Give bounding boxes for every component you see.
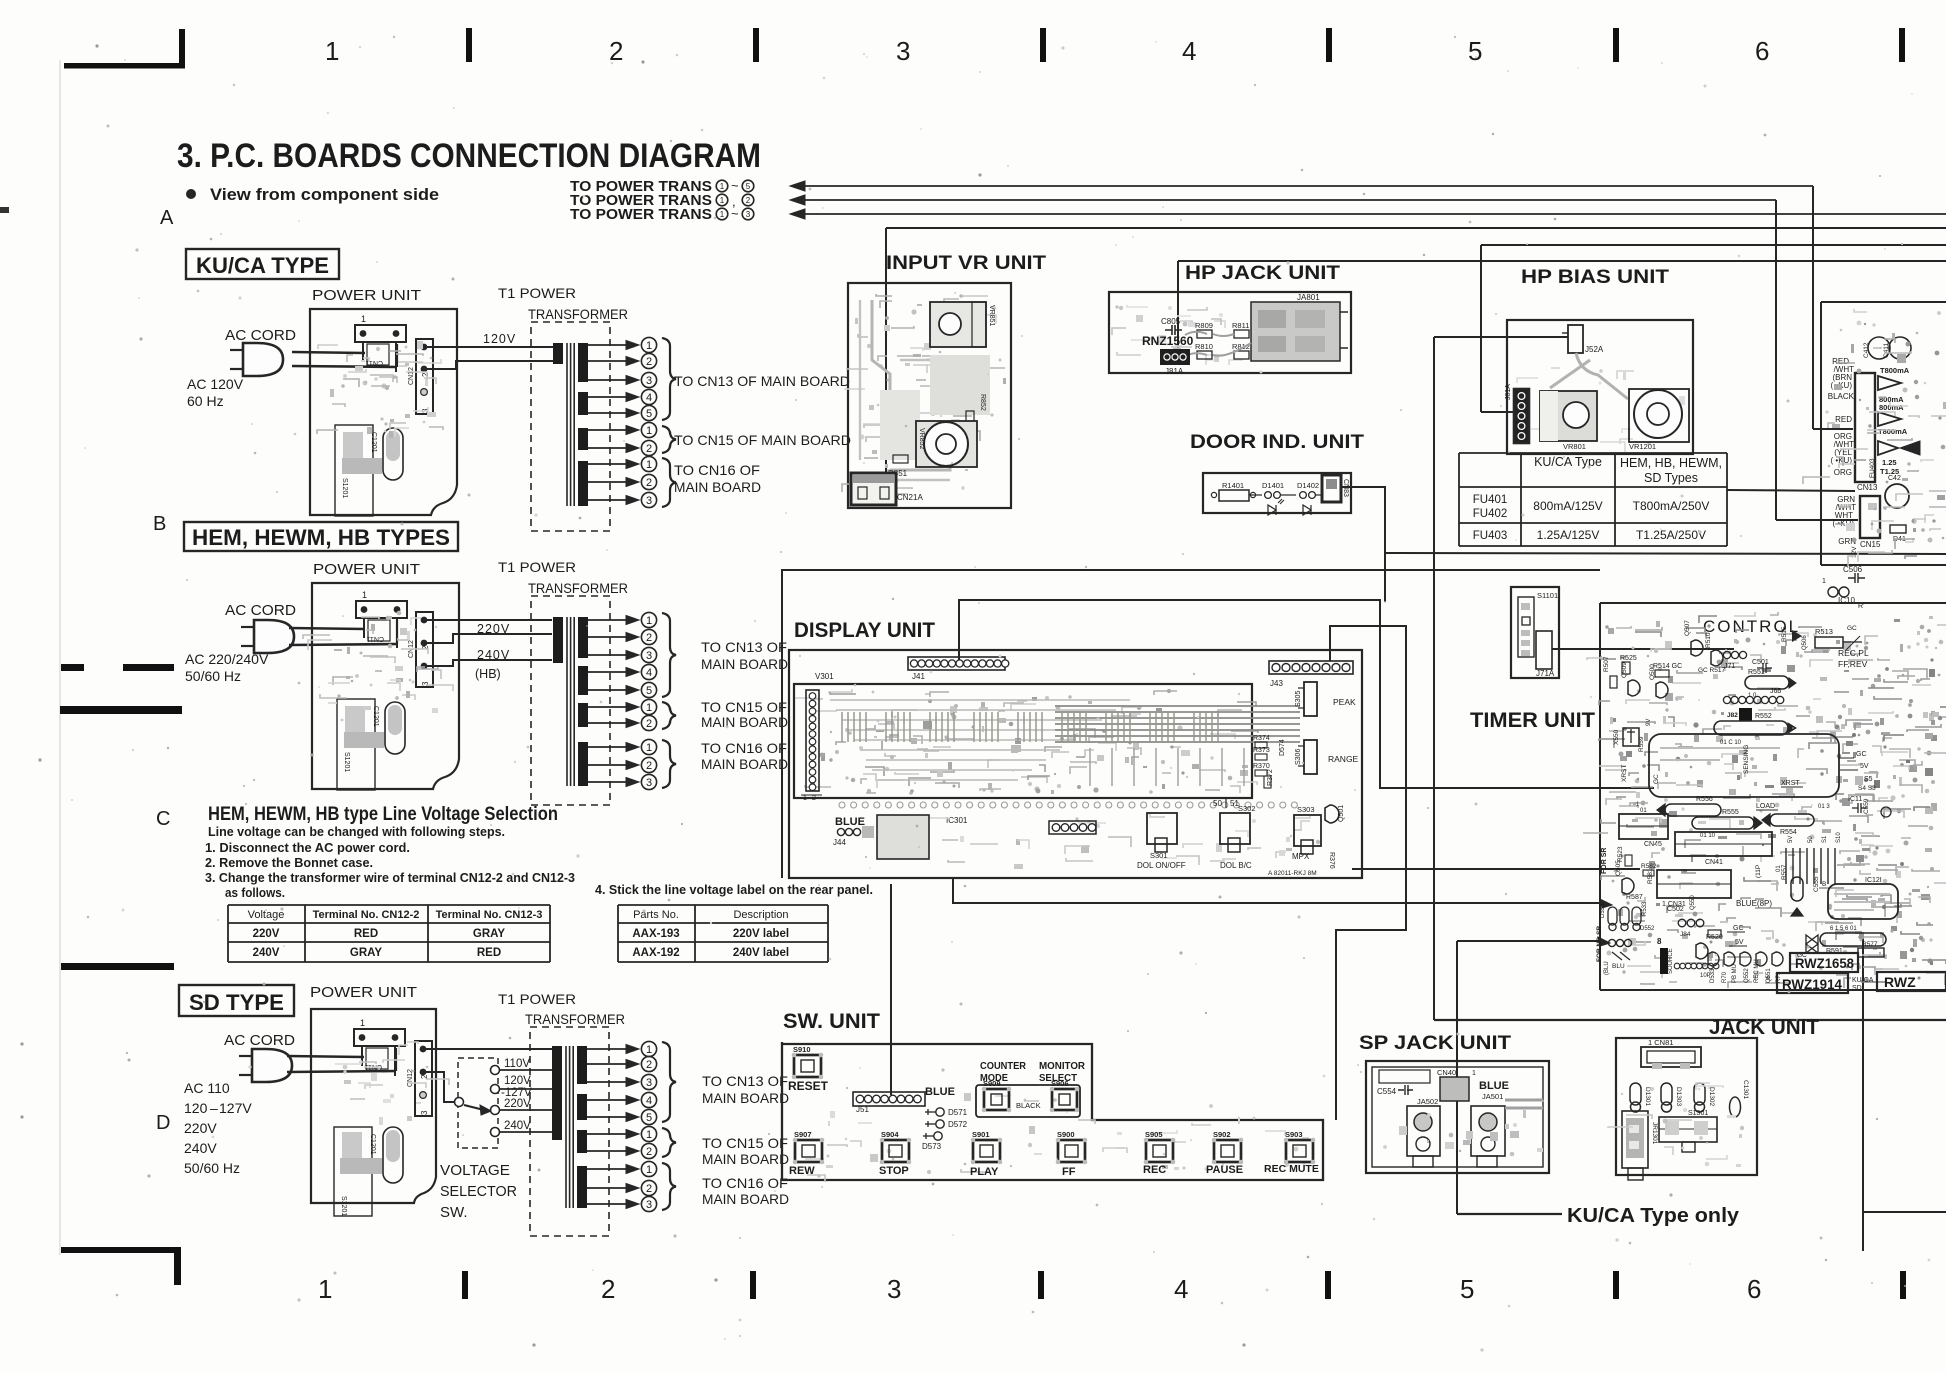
potentiometer VR851 — [930, 302, 986, 347]
wire display J43 to SW unit — [1330, 626, 1406, 1120]
svg-text:1: 1 — [646, 1164, 652, 1176]
IC12I stadium — [1828, 884, 1898, 919]
svg-text:CN12: CN12 — [408, 367, 415, 385]
svg-text:REC MU: REC MU — [1754, 959, 1760, 983]
svg-text:Parts No.: Parts No. — [633, 909, 679, 921]
svg-text:2: 2 — [609, 36, 623, 66]
svg-text:SELECTOR: SELECTOR — [440, 1183, 517, 1200]
svg-text:J44: J44 — [833, 838, 846, 847]
connector J81A — [1160, 349, 1190, 365]
svg-text:127V: 127V — [219, 1100, 252, 1116]
svg-text:120V: 120V — [504, 1075, 531, 1087]
svg-text:ORG: ORG — [1834, 468, 1852, 477]
svg-text:JA502: JA502 — [1417, 1097, 1438, 1106]
connector CN12 — [416, 339, 433, 414]
svg-text:BLACK: BLACK — [1016, 1101, 1041, 1110]
connector J42 — [806, 690, 819, 791]
svg-text:VR851: VR851 — [988, 305, 995, 327]
transformer core — [566, 617, 568, 786]
svg-text:3: 3 — [646, 375, 652, 387]
TIMER UNIT board S1101 outline — [1511, 587, 1559, 678]
svg-text:HEM, HEWM, HB type Line Voltag: HEM, HEWM, HB type Line Voltage Selectio… — [208, 804, 558, 825]
svg-text:POWER UNIT: POWER UNIT — [313, 561, 420, 578]
SP JACK board outline — [1366, 1061, 1549, 1173]
svg-text:1: 1 — [646, 742, 652, 754]
svg-text:R’: R’ — [1858, 603, 1865, 610]
wire display J41 to control — [959, 600, 1654, 788]
svg-text:S910: S910 — [793, 1045, 811, 1054]
svg-text:R370: R370 — [1253, 763, 1270, 770]
display bottom traces — [1087, 820, 1091, 824]
svg-text:(11P: (11P — [1755, 865, 1762, 878]
svg-text:R513: R513 — [1815, 627, 1833, 636]
INPUT VR board gray traces — [894, 479, 898, 483]
transistor Q509 — [1628, 680, 1640, 696]
svg-text:COUNTER: COUNTER — [980, 1060, 1026, 1072]
svg-text:RWZ: RWZ — [1884, 974, 1916, 990]
svg-text:10P: 10P — [1700, 973, 1711, 979]
BLUE connector bottom left — [1608, 939, 1615, 946]
brace CN16 group (SD) — [662, 1163, 676, 1210]
svg-text:FU402: FU402 — [1473, 508, 1508, 520]
diode D571 — [936, 1108, 944, 1116]
wire CN83 to main board CN15 — [1341, 487, 1946, 554]
DISPLAY UNIT board outline — [789, 650, 1362, 878]
svg-text:S909: S909 — [983, 1079, 1001, 1088]
wire J41 junction vertical — [1384, 553, 1386, 602]
svg-text:IC11: IC11 — [1848, 796, 1862, 803]
svg-text:5: 5 — [1468, 36, 1482, 66]
connector J71A — [1536, 631, 1552, 669]
svg-text:D571: D571 — [948, 1108, 968, 1117]
svg-text:1: 1 — [362, 590, 367, 600]
svg-text:AAX-192: AAX-192 — [632, 947, 679, 959]
svg-text:J43: J43 — [1270, 679, 1283, 688]
svg-text:S305: S305 — [1295, 691, 1302, 707]
svg-text:STOP: STOP — [879, 1165, 909, 1177]
left margin dash marks — [0, 207, 9, 213]
fuse triangle 4 bowtie — [1878, 441, 1898, 455]
svg-text:CN11: CN11 — [367, 635, 384, 642]
svg-text:S900: S900 — [1057, 1130, 1075, 1139]
svg-text:R551: R551 — [1748, 669, 1765, 676]
svg-text:4: 4 — [1174, 1274, 1188, 1304]
svg-text:GC: GC — [1847, 625, 1857, 632]
svg-text:50: 50 — [1808, 836, 1814, 843]
svg-text:RWZ1658: RWZ1658 — [1795, 955, 1854, 971]
svg-text:DOL ON/OFF: DOL ON/OFF — [1137, 861, 1186, 870]
svg-text:R810: R810 — [1195, 342, 1213, 351]
svg-text:1: 1 — [325, 36, 339, 66]
svg-text:3: 3 — [887, 1274, 901, 1304]
svg-text:TRANSFORMER: TRANSFORMER — [528, 580, 628, 596]
svg-text:51: 51 — [1230, 799, 1239, 808]
connector CN11 — [355, 325, 406, 342]
svg-text:REC: REC — [1143, 1164, 1166, 1176]
svg-text:50: 50 — [1213, 799, 1222, 808]
svg-text:C: C — [156, 808, 170, 830]
wire control board to jack area — [1862, 935, 1864, 1251]
svg-text:J71: J71 — [1724, 663, 1735, 670]
svg-text:120: 120 — [184, 1100, 208, 1116]
svg-text:S906: S906 — [1051, 1079, 1069, 1088]
transistor Q505 — [1622, 878, 1634, 894]
fuse triangle 3 — [1878, 412, 1901, 426]
bottom transistor row — [1708, 952, 1719, 966]
svg-text:3: 3 — [646, 777, 652, 789]
resistor R556 pill — [1665, 804, 1721, 816]
svg-text:AAX-193: AAX-193 — [632, 928, 679, 940]
svg-text:AC 220/240V: AC 220/240V — [185, 651, 269, 667]
HP BIAS board outline — [1507, 320, 1693, 454]
via row below glass — [839, 802, 845, 808]
svg-text:HP BIAS UNIT: HP BIAS UNIT — [1521, 267, 1669, 288]
svg-text:MAIN BOARD: MAIN BOARD — [701, 714, 788, 730]
svg-text:240V: 240V — [477, 648, 510, 662]
svg-text:FU401: FU401 — [1473, 494, 1508, 506]
svg-text:REC MUTE: REC MUTE — [1264, 1163, 1319, 1175]
svg-text:R559: R559 — [1638, 736, 1645, 752]
control board background noise — [1772, 794, 1794, 798]
power unit PCB outline — [312, 583, 459, 789]
svg-text:RESET: RESET — [788, 1079, 829, 1093]
DOOR IND board outline — [1203, 473, 1351, 513]
power transformer T1 dashed box — [531, 322, 610, 531]
svg-text:3. Change the transformer wi: 3. Change the transformer wire of termin… — [205, 870, 575, 885]
svg-text:SW. UNIT: SW. UNIT — [783, 1010, 880, 1033]
svg-text:6: 6 — [1747, 1274, 1761, 1304]
connector J43 — [1269, 661, 1353, 674]
IC big stadium — [1649, 734, 1839, 797]
svg-text:01: 01 — [1776, 865, 1782, 872]
svg-text:SENSING: SENSING — [1743, 745, 1750, 774]
svg-text:TIMER UNIT: TIMER UNIT — [1470, 709, 1595, 732]
wire CN12 to transformer 120V (KU/CA) — [421, 344, 428, 351]
svg-text:LOAD: LOAD — [1756, 803, 1775, 810]
diode D41 — [1890, 525, 1906, 533]
svg-text:POWER UNIT: POWER UNIT — [310, 984, 417, 1001]
resistor R552 pill — [1714, 721, 1788, 735]
svg-text:220V: 220V — [184, 1120, 217, 1136]
push switch S902 PAUSE — [1214, 1140, 1241, 1162]
svg-text:R376: R376 — [1328, 852, 1335, 869]
svg-text:R507: R507 — [1603, 656, 1610, 672]
svg-text:2: 2 — [646, 632, 652, 644]
connector J65 — [1723, 696, 1730, 703]
svg-text:J82: J82 — [1727, 712, 1738, 719]
switch S1101 inner parts — [1518, 597, 1534, 657]
switch S302 — [1220, 813, 1250, 844]
svg-text:S902: S902 — [1213, 1130, 1231, 1139]
svg-text:4: 4 — [646, 392, 652, 404]
svg-text:S1: S1 — [1822, 835, 1828, 843]
connector CN11 — [356, 601, 407, 618]
diode D572 — [936, 1120, 944, 1128]
connector J82 black — [1739, 708, 1752, 721]
transformer core — [565, 1046, 567, 1208]
svg-text:SD Types: SD Types — [1644, 471, 1698, 485]
push switch S906 — [1052, 1089, 1077, 1110]
svg-text:1: 1 — [360, 1018, 365, 1028]
svg-text:J41: J41 — [912, 672, 925, 681]
svg-text:C506: C506 — [1843, 565, 1863, 574]
svg-text:5: 5 — [646, 408, 652, 420]
svg-text:TO CN15 OF: TO CN15 OF — [701, 699, 787, 715]
wire KU/CA type only leader — [1457, 1213, 1562, 1215]
potentiometer VR1201 — [1629, 389, 1689, 442]
svg-text:1: 1 — [720, 182, 725, 191]
svg-text:3: 3 — [646, 650, 652, 662]
svg-text:2: 2 — [646, 760, 652, 772]
svg-text:S904: S904 — [881, 1130, 899, 1139]
svg-text:MPX: MPX — [1292, 852, 1310, 861]
svg-text:RED: RED — [354, 928, 378, 940]
svg-text:2: 2 — [646, 1059, 652, 1071]
svg-text:3: 3 — [646, 495, 652, 507]
transformer primary winding — [552, 1046, 562, 1140]
svg-text:TO POWER TRANS: TO POWER TRANS — [570, 207, 712, 223]
svg-text:MAIN BOARD: MAIN BOARD — [701, 656, 788, 672]
svg-text:2: 2 — [646, 443, 652, 455]
svg-text:1: 1 — [646, 1129, 652, 1141]
wire display bottom to control D553 — [953, 878, 1600, 903]
section label box HEM HEWM HB TYPES — [184, 522, 458, 551]
svg-text:1: 1 — [646, 615, 652, 627]
wire display outer frame — [782, 570, 1375, 878]
svg-text:Terminal No. CN12-3: Terminal No. CN12-3 — [436, 909, 543, 921]
diode D573 — [934, 1132, 942, 1140]
svg-text:Q505: Q505 — [1615, 860, 1622, 876]
svg-text:REC,PL: REC,PL — [1838, 648, 1869, 658]
svg-text:R374: R374 — [1253, 735, 1270, 742]
switch S301 — [1147, 813, 1177, 844]
wire J52A feed vertical — [1433, 337, 1435, 1020]
svg-text:60 Hz: 60 Hz — [187, 393, 224, 409]
svg-text:R587: R587 — [1626, 894, 1643, 901]
JACK UNIT board outline — [1616, 1038, 1757, 1175]
line voltage label parts table — [618, 904, 828, 906]
svg-text:MAIN BOARD: MAIN BOARD — [702, 1151, 789, 1167]
svg-text:B: B — [1822, 881, 1826, 888]
svg-text:RED: RED — [1835, 415, 1852, 424]
svg-text:2: 2 — [646, 1183, 652, 1195]
brace CN15 group (HEM) — [662, 702, 676, 729]
svg-text:Q500: Q500 — [1649, 664, 1656, 680]
svg-text:4: 4 — [646, 1095, 652, 1107]
svg-text:S302: S302 — [1238, 804, 1256, 813]
svg-text:3: 3 — [646, 1077, 652, 1089]
svg-text:S905: S905 — [1145, 1130, 1163, 1139]
svg-text:X550: X550 — [1613, 729, 1620, 745]
svg-text:MONITOR: MONITOR — [1039, 1060, 1085, 1072]
voltage selection table — [228, 904, 550, 906]
svg-text:R525: R525 — [1620, 655, 1637, 662]
connector CN31 — [1657, 870, 1731, 898]
transistor Q510 — [1711, 650, 1723, 666]
push switch S901 PLAY — [973, 1140, 1000, 1162]
svg-text:XRST: XRST — [1621, 765, 1628, 782]
potentiometer VR801 — [1540, 391, 1597, 441]
svg-text:J51: J51 — [856, 1105, 869, 1114]
svg-text:Q507: Q507 — [1684, 620, 1691, 636]
svg-text:BLU: BLU — [1612, 963, 1625, 970]
svg-text:1: 1 — [1472, 1070, 1476, 1077]
svg-text:1 CN81: 1 CN81 — [1648, 1038, 1673, 1047]
connector CN41 — [1675, 832, 1772, 856]
svg-text:C554: C554 — [1377, 1087, 1397, 1096]
svg-text:TO CN16 OF: TO CN16 OF — [702, 1175, 788, 1191]
transistor Q501 — [1325, 805, 1339, 823]
svg-text:GC: GC — [1856, 751, 1867, 758]
resistor R554 pill — [1770, 814, 1814, 826]
wire hp-jack-unit to main board — [1178, 260, 1946, 262]
HP BIAS gray traces — [1550, 353, 1628, 420]
svg-text:2: 2 — [601, 1274, 615, 1304]
svg-text:4: 4 — [1182, 36, 1196, 66]
svg-text:6: 6 — [1755, 36, 1769, 66]
svg-text:REW: REW — [789, 1165, 815, 1177]
svg-text:S5: S5 — [1864, 776, 1873, 783]
power unit PCB artwork (SD) — [334, 1127, 372, 1216]
diode D1302 — [1694, 1083, 1705, 1105]
svg-text:R515: R515 — [1781, 626, 1788, 642]
svg-text:800mA: 800mA — [1879, 403, 1904, 412]
svg-text:CN45: CN45 — [1644, 841, 1662, 848]
svg-text:CN83: CN83 — [1342, 479, 1349, 497]
power transformer T1 dashed box — [530, 1027, 609, 1236]
svg-text:CN40: CN40 — [1437, 1068, 1456, 1077]
svg-text:5V: 5V — [1735, 939, 1744, 946]
svg-text:J52A: J52A — [1585, 345, 1604, 354]
transformer secondary windings — [578, 343, 588, 382]
svg-text:(BLU: (BLU — [1604, 961, 1610, 975]
connector J52A — [1568, 325, 1583, 353]
svg-text:R70: R70 — [1722, 971, 1728, 983]
svg-text:TO CN15 OF MAIN BOARD: TO CN15 OF MAIN BOARD — [674, 432, 851, 448]
svg-text:S1201: S1201 — [340, 1196, 347, 1216]
svg-text:GC R517: GC R517 — [1698, 667, 1725, 674]
svg-text:2. Remove the Bonnet case.: 2. Remove the Bonnet case. — [205, 855, 373, 870]
svg-text:2: 2 — [646, 356, 652, 368]
SP JACK label sticker — [1379, 1070, 1430, 1083]
svg-text:240V: 240V — [504, 1120, 531, 1132]
svg-text:01 C 10: 01 C 10 — [1720, 740, 1742, 746]
svg-text:S4 S3: S4 S3 — [1858, 785, 1876, 792]
brace CN16 group (KU/CA) — [662, 458, 676, 507]
diode D1303 — [1661, 1083, 1672, 1105]
svg-text:R373: R373 — [1253, 747, 1270, 754]
svg-text:3: 3 — [746, 210, 751, 219]
svg-text:Q550: Q550 — [1690, 895, 1696, 910]
page specks — [95, 44, 98, 47]
svg-text:TRANSFORMER: TRANSFORMER — [528, 306, 628, 322]
svg-text:T800mA/250V: T800mA/250V — [1633, 499, 1710, 513]
svg-text:KU/CA TYPE: KU/CA TYPE — [196, 253, 329, 278]
svg-text:POWER UNIT: POWER UNIT — [312, 287, 421, 304]
push switch S905 REC — [1146, 1140, 1173, 1162]
svg-text:C559: C559 — [1863, 798, 1870, 814]
svg-text:VR801: VR801 — [1563, 442, 1586, 451]
svg-text:JR1301: JR1301 — [1651, 1122, 1658, 1145]
connector J51 — [853, 1092, 925, 1106]
wire fuse table to CN15 — [1727, 490, 1855, 491]
svg-text:AC CORD: AC CORD — [225, 327, 296, 344]
svg-text:KU/CA Type: KU/CA Type — [1534, 455, 1602, 469]
vertical trace cluster — [1785, 848, 1787, 884]
svg-text:Q552: Q552 — [1744, 968, 1750, 983]
svg-text:4. Stick the line voltage la: 4. Stick the line voltage label on the r… — [595, 882, 873, 897]
svg-text:3: 3 — [896, 36, 910, 66]
svg-text:KU/CA Type only: KU/CA Type only — [1567, 1205, 1740, 1227]
brace CN13 group (SD) — [662, 1042, 676, 1122]
potentiometer VR852 — [916, 421, 977, 467]
svg-text:S1101: S1101 — [1537, 591, 1558, 600]
svg-text:TO CN15 OF: TO CN15 OF — [702, 1135, 788, 1151]
brace CN13 group (HEM) — [662, 613, 676, 697]
svg-text:GRAY: GRAY — [350, 947, 382, 959]
svg-text:FOR SR: FOR SR — [1601, 848, 1608, 874]
svg-text:as follows.: as follows. — [225, 885, 285, 900]
svg-text:D1401: D1401 — [1262, 481, 1284, 490]
connector CN12 — [415, 1041, 432, 1116]
svg-text:JA801: JA801 — [1297, 293, 1320, 302]
svg-text:S1201: S1201 — [341, 478, 348, 498]
svg-text:3. P.C. BOARDS CONNECTION D: 3. P.C. BOARDS CONNECTION DIAGRAM — [177, 137, 761, 175]
svg-text:MAIN BOARD: MAIN BOARD — [702, 1191, 789, 1207]
svg-text:PAUSE: PAUSE — [1206, 1164, 1243, 1176]
transistor Q508 — [1656, 682, 1668, 698]
bullet view-from-component-side — [186, 189, 196, 199]
svg-text:RNZ1560: RNZ1560 — [1142, 334, 1194, 348]
svg-text:C502: C502 — [1667, 906, 1684, 913]
page corner mark bottom-left — [61, 1247, 180, 1253]
svg-text:D1402: D1402 — [1297, 481, 1319, 490]
svg-text:50/60 Hz: 50/60 Hz — [184, 1160, 240, 1176]
svg-text:240V: 240V — [253, 947, 280, 959]
svg-text:TO CN16 OF: TO CN16 OF — [701, 740, 787, 756]
svg-text:FF: FF — [1062, 1166, 1076, 1178]
svg-text:S10: S10 — [1836, 832, 1842, 843]
svg-text:1: 1 — [646, 340, 652, 352]
INPUT VR UNIT board outline — [848, 283, 1011, 508]
svg-text:5V: 5V — [1788, 836, 1794, 843]
svg-text:PEAK: PEAK — [1333, 697, 1356, 707]
svg-text:IC12I: IC12I — [1865, 877, 1882, 884]
svg-text:BLUE: BLUE — [835, 816, 865, 828]
svg-text:R581: R581 — [1647, 868, 1654, 884]
svg-text:HP JACK UNIT: HP JACK UNIT — [1185, 263, 1340, 284]
svg-text:J84: J84 — [1680, 931, 1691, 938]
counter/monitor switch box — [976, 1085, 1080, 1117]
svg-text:220V: 220V — [504, 1098, 531, 1110]
svg-text:1: 1 — [646, 1044, 652, 1056]
control board outline — [1599, 603, 1601, 990]
svg-text:C555: C555 — [1813, 876, 1820, 892]
svg-text:HEM, HEWM, HB TYPES: HEM, HEWM, HB TYPES — [192, 525, 450, 550]
svg-text:C42: C42 — [1888, 475, 1901, 482]
svg-text:MAIN BOARD: MAIN BOARD — [702, 1090, 789, 1106]
svg-text:2: 2 — [646, 1146, 652, 1158]
push switch S910 RESET — [794, 1055, 821, 1077]
svg-text:110V: 110V — [504, 1058, 530, 1070]
svg-text:AC 120V: AC 120V — [187, 376, 244, 392]
switch S1301 — [1659, 1117, 1717, 1142]
svg-text:J65: J65 — [1770, 688, 1781, 695]
svg-text:–: – — [210, 1100, 218, 1116]
svg-text:TO CN13 OF: TO CN13 OF — [701, 639, 787, 655]
svg-text:AC CORD: AC CORD — [225, 602, 296, 619]
svg-text:1: 1 — [646, 702, 652, 714]
